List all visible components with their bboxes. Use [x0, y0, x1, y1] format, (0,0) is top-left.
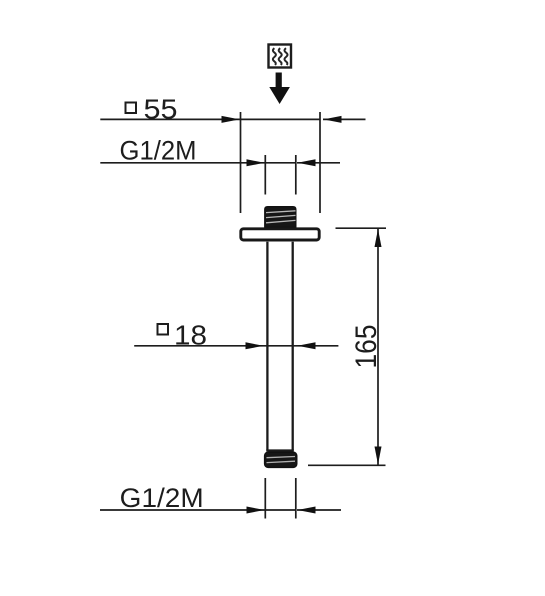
- arm pipe right wall: [292, 242, 294, 451]
- dimension G1/2M bottom right arrowhead and tail: [297, 507, 341, 514]
- dimension 165 label: [350, 325, 383, 369]
- dimension G1/2M bottom middle segment: [265, 509, 296, 511]
- dimension G1/2M top left arrowhead: [247, 159, 265, 166]
- dimension G1/2M bottom label: [120, 483, 204, 513]
- dimension G1/2M bottom right extension line: [295, 478, 297, 519]
- dimension 165 bottom arrowhead: [375, 447, 382, 465]
- dimension 165 top arrowhead: [375, 229, 382, 247]
- dimension G1/2M top left extension line: [264, 155, 266, 195]
- svg-text:G1/2M: G1/2M: [120, 136, 197, 166]
- dimension G1/2M top middle segment: [265, 162, 296, 164]
- dimension 18 line: [134, 345, 338, 347]
- dimension 165 top extension line: [336, 227, 387, 229]
- dimension G1/2M top right extension line: [295, 155, 297, 195]
- svg-text:G1/2M: G1/2M: [120, 483, 204, 513]
- dimension G1/2M bottom left extension line: [264, 478, 266, 519]
- dimension G1/2M top leader line: [100, 162, 265, 164]
- dimension 18 label: [158, 320, 208, 351]
- bottom outlet thread: [265, 452, 297, 467]
- dimension 18 left arrowhead: [246, 342, 264, 349]
- ceiling flange: [241, 229, 319, 240]
- dimension 55 left extension line: [240, 112, 242, 213]
- dimension 165 line: [377, 228, 379, 465]
- water flow icon square: [269, 45, 292, 68]
- dimension 55 leader line: [100, 118, 320, 120]
- svg-text:165: 165: [350, 325, 383, 369]
- dimension 18 right arrowhead: [298, 342, 316, 349]
- dimension G1/2M top right arrowhead and tail: [297, 159, 340, 166]
- arm pipe left wall: [266, 242, 268, 451]
- dimension 55 left arrowhead: [222, 116, 240, 123]
- arm pipe bottom shoulder: [266, 449, 294, 451]
- ceiling connection thread (top nipple): [265, 207, 296, 228]
- water flow icon wavy lines: [273, 48, 288, 65]
- flow direction arrow: [269, 73, 290, 105]
- dimension 55 right arrowhead and tail: [323, 116, 366, 123]
- dimension G1/2M bottom left arrowhead: [247, 507, 265, 514]
- dimension G1/2M bottom leader line: [100, 509, 265, 511]
- dimension 55 right extension line: [319, 112, 321, 213]
- dimension G1/2M top label: [120, 136, 197, 166]
- dimension 165 bottom extension line: [308, 464, 386, 466]
- dimension 55 label: [126, 93, 178, 124]
